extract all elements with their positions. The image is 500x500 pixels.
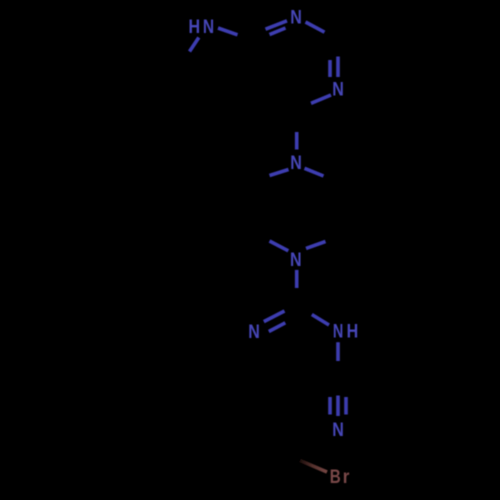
bond C4-N1piperazine (half, visible part) xyxy=(295,132,299,150)
bond N1-C2 (half, visible part) xyxy=(306,22,325,32)
bond N1'-C2' (half, visible part) xyxy=(305,168,324,176)
svg-text:N: N xyxy=(290,152,302,174)
bond C2=N3 double, main line xyxy=(336,57,340,78)
bond NH-C(nitrile C) (half, visible part) xyxy=(336,342,340,361)
svg-text:H: H xyxy=(347,321,359,343)
bond C7a=N1 double, inner line xyxy=(270,28,286,35)
bond C#N triple, left line xyxy=(328,397,332,415)
bond C#N triple, middle line xyxy=(336,396,340,417)
bond C(amidine)=N(imino) double, inner line xyxy=(269,323,286,332)
bond N7-C7a (half, visible part) xyxy=(218,28,238,35)
bond C5'-N4' (half, visible part) xyxy=(270,241,289,251)
svg-text:N: N xyxy=(332,79,344,101)
svg-text:N: N xyxy=(203,16,214,38)
svg-text:N: N xyxy=(248,321,260,343)
bond N7-C6 (half, visible part) xyxy=(190,38,199,52)
svg-text:N: N xyxy=(333,321,343,343)
bond C2=N3 double, inner line xyxy=(328,60,332,77)
bond C3'-N4' (half, visible part) xyxy=(306,242,326,249)
bond CH3-Br (visible part, brown gradient) xyxy=(300,461,327,473)
bond C(amidine)-NH (half, visible part) xyxy=(312,315,329,326)
bond N4'-C(amidine) (half, visible part) xyxy=(295,270,299,288)
bond C#N triple, right line xyxy=(344,397,348,415)
svg-text:r: r xyxy=(343,466,350,488)
svg-text:N: N xyxy=(290,249,302,271)
bond N3-C4 (half, visible part) xyxy=(311,95,331,103)
svg-text:N: N xyxy=(290,7,302,29)
bond C(amidine)=N(imino) double, main line xyxy=(264,311,285,322)
bond N1'-C6' (half, visible part) xyxy=(270,170,289,176)
svg-text:B: B xyxy=(330,466,341,488)
svg-text:H: H xyxy=(189,16,201,38)
svg-text:N: N xyxy=(332,419,344,441)
bond C7a=N1 double, main line xyxy=(266,21,288,29)
